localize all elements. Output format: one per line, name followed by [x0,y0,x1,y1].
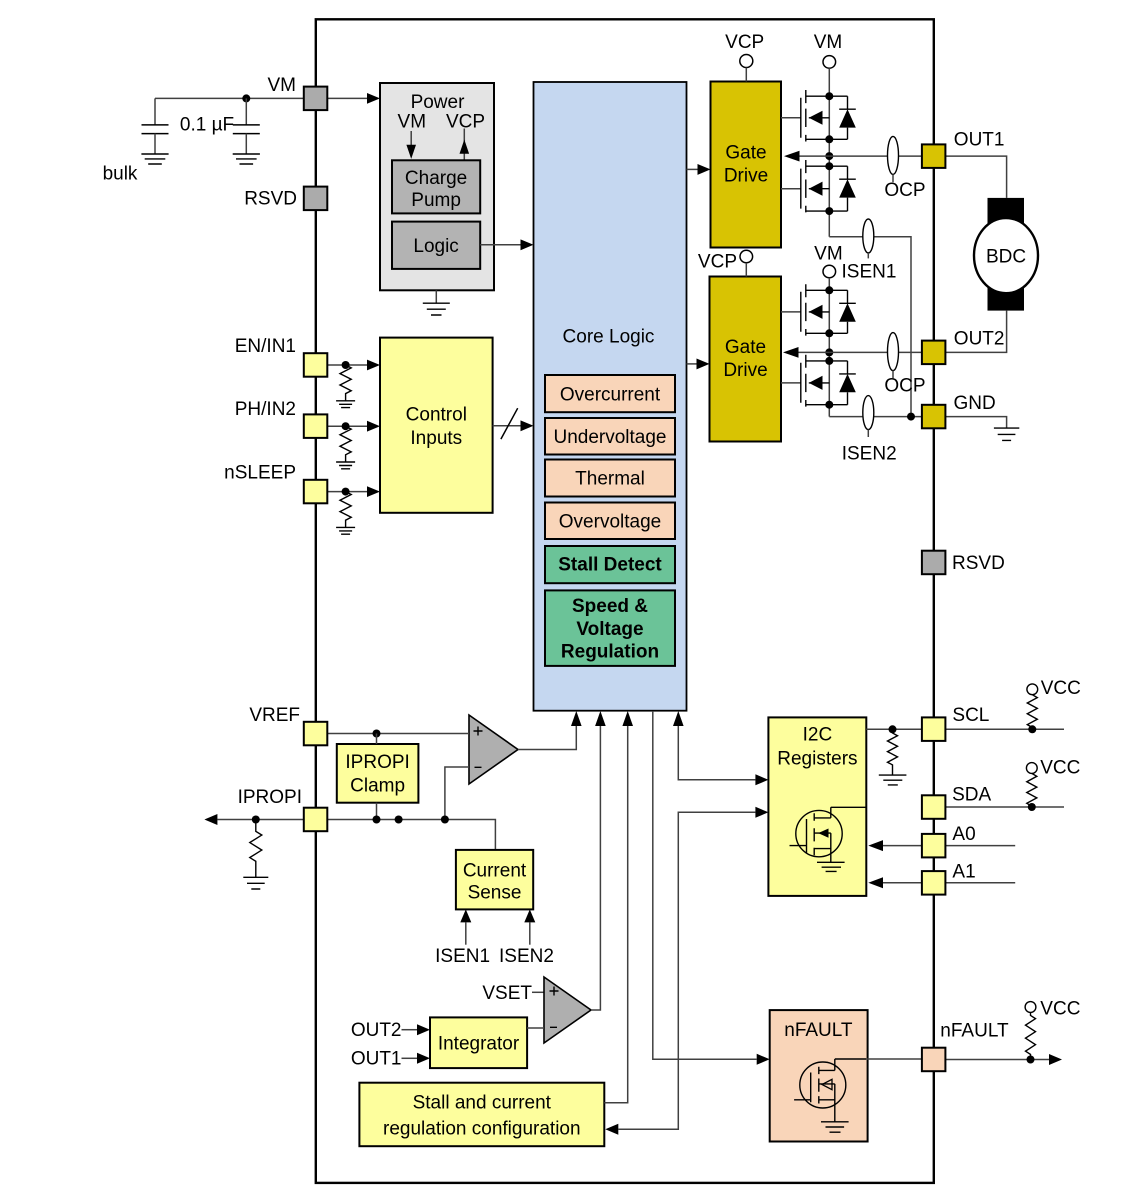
svg-text:VCP: VCP [725,32,764,53]
svg-text:VM: VM [814,32,843,53]
svg-text:GND: GND [954,393,996,414]
svg-text:VREF: VREF [249,705,300,726]
transistor HS2 [781,284,829,335]
stall detect block [545,546,675,583]
wire I2C registers to stall config [618,812,755,1129]
OCP sensor 2 [888,333,899,371]
ground 0.1uF cap [233,154,260,164]
wire OUT2 into integrator [402,1029,418,1031]
wire core logic to I2C registers 1 [678,726,755,780]
pin A0 [922,834,946,858]
pin nSLEEP [304,480,328,504]
svg-text:Stall and current: Stall and current [413,1092,552,1113]
svg-text:VCP: VCP [698,251,737,272]
ground SCL resistor [879,775,907,785]
comparator U2 VSET/integrator [544,977,591,1043]
svg-text:VCC: VCC [1040,998,1080,1019]
svg-text:Speed &: Speed & [572,596,648,617]
svg-text:Voltage: Voltage [576,619,643,640]
svg-text:VCC: VCC [1040,757,1080,778]
gate drive 1 block [711,82,782,248]
wire IPROPI out arrow [217,819,303,821]
svg-text:ISEN1: ISEN1 [842,262,897,283]
gate drive 2 block [710,277,782,442]
transistor I2C open drain [790,807,867,862]
svg-text:I2C: I2C [803,725,833,746]
hb1 nodes [825,92,833,100]
wire OUT1 node to gate drive 1 (arrow) [800,155,830,157]
svg-text:OCP: OCP [884,375,925,396]
resistor EN/IN1 pulldown [340,365,351,401]
half-bridge 2 main vertical [828,278,830,417]
wire VSET to comparator 2 [532,991,544,993]
node VREF clamp junction [373,730,381,738]
body diode LS1 [829,166,856,211]
wire SDA [945,806,1064,808]
svg-text:RSVD: RSVD [244,188,297,209]
wire Core Logic to Gate Drive 2 [687,363,697,365]
svg-text:Stall Detect: Stall Detect [558,555,662,576]
node VM junction [242,94,250,102]
svg-text:OUT2: OUT2 [351,1020,402,1041]
node clamp out [373,816,381,824]
svg-text:Pump: Pump [411,190,461,211]
wire PH/IN2 to Control Inputs [327,425,367,427]
wire ISEN2 route to GND [829,416,922,418]
capacitor C 0.1uF [245,98,247,125]
svg-text:PH/IN2: PH/IN2 [235,399,296,420]
ground PH/IN2 [336,462,355,469]
svg-text:A1: A1 [952,861,975,882]
svg-text:Drive: Drive [724,165,768,186]
wire comparator minus input [445,767,469,820]
wire A0 [883,845,1015,847]
svg-text:Gate: Gate [725,337,766,358]
svg-text:0.1 µF: 0.1 µF [180,115,234,136]
svg-text:Integrator: Integrator [438,1033,520,1054]
svg-text:Sense: Sense [468,882,522,903]
charge pump block [392,160,480,213]
wire ISEN1 route [829,237,911,417]
pin nFAULT [922,1048,946,1072]
ground nFAULT mosfet [821,1122,849,1132]
body diode HS2 [829,290,856,333]
wire SCL [866,728,1064,730]
I2C registers block [768,717,866,896]
resistor IPROPI [250,820,262,878]
svg-text:ISEN1: ISEN1 [435,946,490,967]
svg-text:A0: A0 [952,824,975,845]
svg-text:Current: Current [463,860,527,881]
pin EN/IN1 [304,353,328,377]
wire OUT1 pin to motor [945,156,1006,198]
wire comparator 2 output to core logic [591,726,600,1010]
pin SCL [922,717,946,741]
svg-text:OUT1: OUT1 [351,1049,402,1070]
overvoltage block [545,503,675,540]
node aux [395,816,403,824]
pin RSVD right [922,551,946,575]
svg-text:VM: VM [814,244,843,265]
svg-text:ISEN2: ISEN2 [499,946,554,967]
transistor HS1 [781,90,829,142]
ground nSLEEP [336,527,355,534]
wire core logic to nFAULT block [653,711,757,1059]
node comparator minus junction [441,816,449,824]
wire Logic to Core Logic [480,244,520,246]
node ISEN GND junction [907,413,915,421]
wire ISEN2 into current sense [529,922,531,944]
svg-text:RSVD: RSVD [952,553,1005,574]
current sense block [456,850,533,910]
svg-text:Overvoltage: Overvoltage [559,512,661,533]
overcurrent block [545,375,675,412]
pin OUT1 [922,144,946,168]
undervoltage block [545,418,675,455]
stall and current regulation configuration block [359,1083,604,1147]
wire stall config to core logic [604,726,627,1103]
svg-text:Clamp: Clamp [350,776,405,797]
resistor SCL to ground [888,729,898,775]
comparator U1 VREF/IPROPI [469,715,518,784]
svg-text:bulk: bulk [103,164,138,185]
body diode HS1 [829,96,856,139]
svg-text:OUT2: OUT2 [954,328,1005,349]
svg-text:IPROPI: IPROPI [345,752,409,773]
ground GND pin [994,428,1019,440]
svg-text:OCP: OCP [884,180,925,201]
svg-text:Thermal: Thermal [575,469,645,490]
ISEN1 sensor [863,219,874,253]
transistor LS1 [781,160,829,212]
integrator block [430,1017,527,1068]
wire VREF pin to comparator [327,733,469,735]
node IPROPI resistor junction [252,816,260,824]
VCC pullup SDA [1026,763,1037,774]
nFAULT block [770,1010,868,1141]
svg-text:SDA: SDA [952,785,991,806]
ground power block [435,290,437,303]
pin VM [304,87,328,111]
wire OUT2 node to OUT2 pin [829,351,922,353]
pin OUT2 [922,341,946,365]
svg-text:Inputs: Inputs [410,428,462,449]
IPROPI clamp block [337,744,419,803]
transistor nFAULT open drain [794,1059,866,1122]
svg-text:Charge: Charge [405,168,467,189]
control inputs block [380,338,493,513]
wire nFAULT to pin [866,1058,922,1060]
VCC pullup nFAULT [1025,1002,1036,1013]
pin A1 [922,871,946,895]
node EN/IN1 [342,361,350,369]
wire A1 [883,882,1015,884]
pin SDA [922,795,946,819]
svg-text:EN/IN1: EN/IN1 [235,336,296,357]
wire EN/IN1 to Control Inputs [327,364,367,366]
wire Core Logic to Gate Drive 1 [687,168,698,170]
pin IPROPI [304,808,328,832]
svg-text:VCC: VCC [1041,678,1081,699]
svg-text:Drive: Drive [723,360,767,381]
capacitor bulk [154,98,156,125]
svg-text:Core Logic: Core Logic [563,327,655,348]
wire comparator 1 output to core logic [518,726,576,750]
wire IPROPI line to current sense [327,820,495,850]
ground bulk cap [141,154,168,164]
wire nFAULT out [945,1059,1049,1061]
svg-text:VSET: VSET [482,983,532,1004]
svg-text:nSLEEP: nSLEEP [224,462,296,483]
svg-text:Overcurrent: Overcurrent [560,384,661,405]
svg-text:IPROPI: IPROPI [238,787,302,808]
node PH/IN2 [342,422,350,430]
VM arrow into charge pump [410,131,412,147]
wire ISEN1 into current sense [465,922,467,944]
svg-text:VM: VM [268,75,297,96]
speed and voltage regulation block [545,590,675,666]
svg-text:Registers: Registers [777,749,857,770]
ISEN2 sensor [863,396,874,430]
wire nSLEEP to Control Inputs [327,491,367,493]
core logic block [534,82,687,711]
wire clamp bottom connector [376,803,378,820]
pin GND [922,405,946,429]
power block [380,83,494,290]
svg-text:nFAULT: nFAULT [784,1020,853,1041]
transistor LS2 [781,355,829,407]
svg-text:SCL: SCL [952,705,989,726]
ground IPROPI [243,877,268,889]
wire OUT2 node to gate drive 2 (arrow) [799,351,830,353]
wire Control Inputs to Core Logic with bus slash [493,425,521,427]
hb2 nodes [825,286,833,294]
resistor nSLEEP pulldown [340,492,351,528]
svg-text:Regulation: Regulation [561,641,659,662]
svg-text:Logic: Logic [413,236,458,257]
OCP sensor 1 [888,136,899,174]
svg-text:ISEN2: ISEN2 [842,443,897,464]
body diode LS2 [829,361,856,405]
pin RSVD left [304,187,328,211]
ground EN/IN1 [336,401,355,408]
svg-text:VCP: VCP [446,112,485,133]
half-bridge 1 main vertical [828,68,830,237]
logic block [392,222,480,269]
wire VM pin to Power block [327,97,367,99]
ground I2C mosfet [817,862,845,871]
motor BDC [974,198,1038,311]
wire OUT1 node to OUT1 pin [829,155,922,157]
pin PH/IN2 [304,414,328,438]
svg-text:Gate: Gate [725,142,766,163]
VCC pullup SCL [1027,684,1038,695]
pin VREF [304,722,328,746]
wire GND pin to ground [945,417,1006,429]
svg-text:VM: VM [398,112,427,133]
svg-text:Control: Control [406,405,467,426]
svg-text:regulation configuration: regulation configuration [383,1118,581,1139]
wire motor to OUT2 pin [945,311,1006,353]
node nSLEEP [342,488,350,496]
VCP arrow out of charge pump [463,129,465,161]
wire VM net [155,97,304,99]
thermal block [545,460,675,497]
svg-text:Power: Power [411,92,466,113]
svg-text:BDC: BDC [986,246,1026,267]
chip boundary [316,19,934,1183]
node SCL resistor [889,725,897,733]
wire OUT1 into integrator [402,1057,418,1059]
svg-text:Undervoltage: Undervoltage [553,427,666,448]
wire clamp top connector [376,734,378,745]
svg-text:OUT1: OUT1 [954,129,1005,150]
resistor PH/IN2 pulldown [340,426,351,462]
wire integrator to comparator minus [527,1027,544,1029]
svg-text:nFAULT: nFAULT [940,1020,1009,1041]
